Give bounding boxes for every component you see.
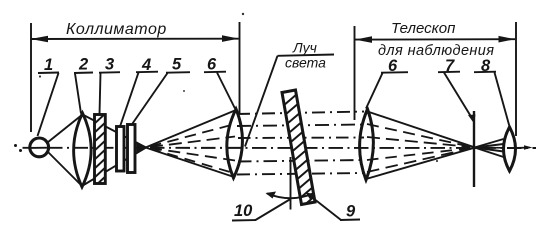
collimator dimension arrow right: [222, 35, 239, 42]
svg-text:света: света: [285, 55, 326, 71]
fan F2 to eyepiece ray 5: [475, 147, 504, 149]
leader 9 to plate with arrowhead: [306, 193, 342, 221]
fan ray F1 dash lower1: [150, 148, 235, 161]
plate 9 (tilted glass plate, hatched): [282, 90, 315, 208]
lens 6 collimator objective: [227, 109, 243, 178]
svg-text:3: 3: [105, 56, 114, 74]
fan ray F1 dash upper1: [150, 124, 235, 147]
telescope fan dash lower1: [367, 148, 470, 160]
leader 2 to lens: [75, 74, 81, 114]
svg-text:Коллиматор: Коллиматор: [66, 21, 167, 38]
telescope fan dash lower2: [367, 149, 470, 172]
leader 6R to lens: [366, 73, 383, 109]
telescope dimension line: [355, 38, 515, 40]
svg-text:10: 10: [234, 202, 253, 220]
telescope fan dash upper2: [367, 137, 470, 147]
rotation axis line below plate: [290, 157, 292, 210]
exit ray arrow: [512, 145, 533, 150]
svg-text:9: 9: [346, 203, 356, 221]
leader 7 to reticle with arrowhead: [444, 73, 476, 124]
parallel ray 4 between lenses: [238, 160, 364, 162]
ray lens6R top to focus F2 (solid): [366, 111, 475, 147]
scan speck 2: [39, 75, 41, 77]
svg-text:Луч: Луч: [292, 40, 317, 56]
underline 7: [438, 71, 460, 74]
diaphragm 4: [117, 127, 125, 172]
leader 4 to diaphragm: [120, 73, 139, 127]
lens 6 telescope objective: [360, 109, 374, 180]
scan speck 4: [183, 90, 185, 92]
svg-text:Телескоп: Телескоп: [391, 20, 455, 37]
parallel ray 5 between lenses: [237, 173, 364, 175]
underline 3: [99, 71, 120, 74]
ray lens2 top to focus F1: [83, 115, 147, 148]
ray lamp to lens2 top: [48, 115, 83, 143]
scan speck 3: [436, 160, 438, 162]
rotation arc 10: [266, 192, 314, 199]
underline 6R: [381, 71, 408, 74]
focus F1 wedge: [137, 142, 147, 155]
underline 8: [474, 71, 496, 74]
telescope fan dash upper1: [367, 124, 470, 147]
fan ray F1 to lens6 top (solid): [146, 110, 237, 148]
fan F2 to eyepiece ray 4: [475, 148, 504, 158]
underline 9: [340, 219, 360, 222]
telescope dimension extension line left: [354, 26, 356, 120]
leader line for Луч света (overline + pointer to beam): [245, 55, 334, 147]
collimator dimension line: [31, 38, 239, 40]
leader 10 to rotation axis: [256, 199, 291, 220]
underline 5: [166, 71, 190, 74]
collimator dimension extension line left: [30, 23, 32, 132]
leader 5 to diaphragm: [133, 73, 168, 124]
fan F2 to eyepiece ray 1: [475, 139, 504, 148]
fan F2 to eyepiece ray 2: [475, 144, 504, 148]
fan ray F1 dash upper2: [150, 137, 235, 148]
fan F2 to eyepiece ray 3: [475, 148, 504, 152]
leader 6 to lens: [217, 73, 235, 109]
axis start dots: [14, 144, 22, 152]
lens 2 (condenser): [74, 113, 92, 187]
reticle 7 (focal plane line): [473, 111, 475, 187]
fan ray F1 to lens6 bottom (solid): [146, 148, 235, 178]
underline 2: [74, 72, 93, 75]
svg-text:1: 1: [44, 56, 53, 74]
underline 4: [136, 71, 158, 74]
optical axis: [23, 147, 537, 149]
parallel ray 1 between lenses: [237, 112, 364, 115]
underline 10: [232, 219, 256, 222]
telescope dimension extension line right: [515, 22, 517, 136]
underline 6: [204, 71, 226, 74]
collimator dimension arrow left: [31, 36, 49, 43]
lamp 1 (light source): [30, 138, 49, 157]
telescope dimension arrow right: [499, 36, 516, 43]
leader 8 to eyepiece: [495, 73, 510, 127]
eyepiece 8: [504, 127, 516, 171]
underline 1: [38, 72, 59, 75]
ray lamp to lens2 bottom: [48, 152, 83, 187]
axis segment through lamp: [29, 147, 49, 149]
svg-text:6: 6: [207, 56, 217, 74]
leader 1 to lamp: [38, 73, 59, 136]
filter 3 (hatched plate): [93, 112, 107, 188]
ray lens2 bottom to focus F1: [82, 148, 146, 187]
diaphragm 5: [128, 125, 136, 173]
ray lens6R bottom to focus F2 (solid): [366, 148, 475, 179]
leader 3 to filter: [100, 73, 101, 115]
collimator dimension extension line right: [239, 22, 241, 114]
svg-text:5: 5: [172, 56, 182, 74]
fan ray F1 dash lower2: [150, 149, 235, 174]
parallel ray 3 between lenses: [238, 137, 364, 140]
scan speck 1: [242, 13, 244, 15]
parallel ray 2 between lenses: [237, 125, 364, 127]
telescope dimension arrow left: [355, 36, 372, 43]
svg-text:2: 2: [78, 56, 88, 74]
